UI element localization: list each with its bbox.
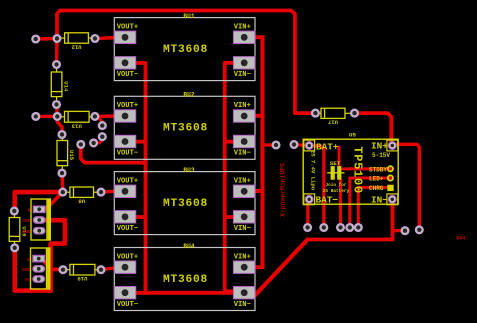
svg-text:VIN+: VIN+ [234, 23, 251, 31]
via U12 cathode [91, 35, 99, 43]
wire CN6 pin1 to U10 [41, 259, 63, 270]
connector CN5 pin 3 pad [33, 228, 45, 234]
module BU4 MT3608 board outline [114, 248, 255, 311]
svg-text:MT3608: MT3608 [163, 274, 208, 286]
connector CN5 pin 1 pad [33, 206, 45, 212]
wire via to BAT+ [296, 143, 308, 147]
svg-text:VOUT−: VOUT− [117, 301, 138, 309]
wire U15 bottom to junction G [60, 173, 64, 192]
diode U8 [70, 187, 94, 197]
module BU2 pad VOUT- [114, 135, 136, 147]
svg-text:2S 7.4V Lipo: 2S 7.4V Lipo [310, 150, 317, 191]
module U5 CHRG square [387, 185, 393, 191]
wire IN- stub to pad [393, 229, 406, 232]
diode U13 [65, 111, 90, 122]
svg-text:U5: U5 [349, 132, 356, 139]
svg-text:U15: U15 [68, 150, 75, 161]
via U17 anode [312, 109, 320, 117]
svg-text:VIN+: VIN+ [234, 102, 251, 110]
via U16 top [10, 207, 18, 215]
via E [90, 139, 98, 147]
via BAT+ stub [290, 141, 298, 149]
wire via pad elbow [94, 137, 103, 143]
via U16 bottom [11, 244, 19, 252]
via U10 cathode [97, 266, 105, 274]
wire junction G left to U16 [15, 192, 63, 211]
module BU1 pad VIN- [233, 57, 255, 69]
wire junction to U14 [55, 39, 59, 65]
diode U16 [9, 218, 20, 242]
via U12 anode junction [53, 35, 61, 43]
svg-text:Join for: Join for [325, 183, 346, 188]
wire VIN+ BU3 elbow [253, 189, 263, 193]
svg-text:2S Battery: 2S Battery [323, 189, 350, 194]
wire junction G diagonal to CN5 pin1 [40, 192, 63, 209]
svg-text:U13: U13 [71, 122, 82, 129]
module BU3 pad VOUT+ [114, 185, 136, 197]
svg-text:VOUT−: VOUT− [117, 150, 138, 158]
module BU3 pad VIN- [233, 211, 255, 223]
module BU2 pad VIN+ [233, 110, 255, 122]
via U15 top [58, 131, 66, 139]
wire VOUT- BU3 elbow [134, 215, 146, 219]
wire VIN- BU2 elbow [225, 140, 234, 144]
wire LED+ trace [350, 177, 391, 180]
svg-text:TP5100: TP5100 [351, 146, 365, 193]
wire BAT+ down to pad under U5 [310, 146, 324, 228]
svg-text:U14: U14 [62, 81, 69, 92]
wire STDBY trace [343, 167, 391, 170]
wire BAT- down to pad [306, 200, 309, 228]
via U10 anode [59, 266, 67, 274]
svg-text:LED+: LED+ [369, 176, 384, 183]
svg-text:BU4: BU4 [456, 235, 465, 241]
via U14 bottom [53, 101, 61, 109]
via IN- stub [401, 227, 409, 235]
module BU4 pad VOUT- [114, 287, 136, 299]
via U14 top [53, 61, 61, 69]
via under U5 4 [346, 224, 354, 232]
via under U5 3 [337, 224, 345, 232]
via C [98, 122, 106, 130]
svg-text:VOUT−: VOUT− [117, 225, 138, 233]
via under U5 1 [304, 224, 312, 232]
wire VIN- chain vertical [225, 63, 234, 291]
wire pad F down to inter-module channel [81, 144, 146, 162]
module BU4 pad VIN+ [233, 261, 255, 273]
svg-text:CN5: CN5 [22, 218, 31, 224]
svg-text:VOUT+: VOUT+ [117, 23, 138, 31]
svg-text:X-powerMiniUPS: X-powerMiniUPS [280, 163, 287, 217]
via U17 cathode [351, 109, 359, 117]
svg-text:VOUT−: VOUT− [117, 71, 138, 79]
wire LED+ drop [348, 178, 351, 228]
svg-text:BU4: BU4 [183, 243, 194, 250]
diode U15 [57, 141, 68, 166]
connector CN6 body [31, 248, 47, 289]
svg-text:GND: GND [22, 229, 31, 235]
module BU1 pad VOUT- [114, 57, 136, 69]
wire top bus from U12 junction to U17 [57, 11, 315, 114]
svg-text:BAT+: BAT+ [316, 141, 339, 152]
module U5 pad BAT+ [304, 140, 315, 151]
via U15 bottom [58, 169, 66, 177]
svg-text:VIN−: VIN− [234, 301, 251, 309]
module U5 STDBY led circle [388, 166, 393, 171]
module BU2 pad VOUT+ [114, 110, 136, 122]
wire U14 bottom to U13 junction [55, 105, 59, 117]
wire jumper down to pad [339, 180, 342, 228]
wire BU4 bottom horizontal [134, 291, 234, 295]
module U5 pad IN- [387, 194, 398, 205]
module U5 TP5100 board outline [303, 139, 398, 204]
via under U5 5 [354, 224, 362, 232]
module U5 pad BAT- [304, 194, 315, 205]
wire stub to left pad row1 [36, 37, 57, 41]
svg-text:VIN+: VIN+ [234, 253, 251, 261]
module BU3 MT3608 board outline [114, 172, 255, 235]
wire stub to left pad row2 [36, 115, 58, 118]
wire U17 right pad to U5 IN+ [355, 113, 392, 143]
module U5 pad IN+ [387, 140, 398, 151]
wire VOUT- chain vertical [134, 63, 146, 293]
connector CN6 pin 1 pad [33, 255, 45, 261]
diode U17 [321, 108, 345, 118]
wire VIN+ trunk [253, 37, 263, 267]
svg-text:U10: U10 [77, 275, 88, 282]
diode U10 [70, 264, 95, 275]
module BU4 pad VIN- [233, 287, 255, 299]
module BU2 MT3608 board outline [114, 96, 255, 159]
svg-text:VIN−: VIN− [234, 225, 251, 233]
wire SET jumper feed [338, 147, 341, 165]
module BU2 pad VIN- [233, 135, 255, 147]
module U5 LED+ circle [388, 175, 393, 180]
wire U13 right to via pad [95, 116, 102, 125]
svg-text:BAT−: BAT− [316, 194, 339, 205]
module BU4 pad VOUT+ [114, 261, 136, 273]
connector CN5 pin 2 pad [33, 217, 45, 223]
via left row2 [32, 113, 40, 121]
connector CN5 body [31, 199, 47, 240]
svg-text:N: N [27, 257, 30, 263]
via D [98, 133, 106, 141]
wire VOUT- BU2 elbow [134, 140, 146, 144]
via under U5 2 [320, 224, 328, 232]
connector CN6 pin 2 pad [33, 266, 45, 272]
via IN+ right [415, 226, 423, 234]
wire U12 to VOUT+ BU1 [95, 37, 120, 38]
wire trunk stub to via [263, 143, 273, 146]
svg-text:5-15V: 5-15V [372, 152, 390, 159]
module BU1 MT3608 board outline [114, 18, 255, 81]
module BU3 pad VOUT- [114, 211, 136, 223]
svg-text:VIN−: VIN− [234, 150, 251, 158]
via junction G [59, 188, 67, 196]
via F [77, 141, 85, 149]
svg-text:MT3608: MT3608 [163, 44, 208, 56]
svg-text:BU2: BU2 [183, 92, 194, 99]
svg-text:MT3608: MT3608 [163, 198, 208, 210]
svg-text:VOUT+: VOUT+ [117, 102, 138, 110]
svg-text:STDBY: STDBY [369, 166, 387, 173]
svg-text:N: N [28, 208, 31, 214]
wire CHRG trace [358, 186, 390, 189]
diode U14 [51, 72, 62, 97]
wire VIN- BU3 elbow [225, 215, 234, 219]
via trunk stub [272, 141, 280, 149]
svg-text:IN−: IN− [371, 194, 388, 205]
svg-text:BU3: BU3 [183, 167, 194, 174]
svg-text:VO: VO [24, 277, 30, 283]
wire bus diagonal to BU4 VIN- [255, 240, 308, 296]
wire CHRG drop [357, 187, 360, 227]
wire U5 IN+ to right pad [396, 144, 419, 229]
svg-text:SET: SET [330, 160, 341, 167]
via U13 anode junction [53, 113, 61, 121]
connector CN6 pin 3 pad [33, 276, 45, 282]
wire IN- down to bus [308, 201, 393, 240]
wire U8 to VOUT+ BU3 [101, 191, 120, 192]
svg-text:VOUT+: VOUT+ [117, 177, 138, 185]
wire VIN+ BU2 elbow [253, 114, 263, 118]
svg-text:VIN−: VIN− [234, 71, 251, 79]
wire U13 to VOUT+ BU2 [95, 114, 120, 118]
svg-text:IN+: IN+ [371, 141, 388, 152]
svg-text:U17: U17 [328, 119, 338, 126]
module BU1 pad VOUT+ [114, 31, 136, 43]
svg-text:MT3608: MT3608 [163, 123, 208, 135]
via U8 cathode [97, 188, 105, 196]
wire U16 bottom loop around CN6 [15, 220, 65, 290]
svg-text:U12: U12 [71, 43, 82, 50]
module BU1 pad VIN+ [233, 31, 255, 43]
wire U13 junction to U15 top [57, 116, 62, 134]
svg-text:GND: GND [22, 267, 31, 273]
svg-text:VOUT+: VOUT+ [117, 253, 138, 261]
jumper JP1 SET pads [327, 172, 344, 174]
diode U12 [65, 33, 89, 43]
wire U10 to VOUT+ BU4 [101, 268, 118, 270]
via left row1 [32, 35, 40, 43]
svg-text:CHRG: CHRG [369, 185, 384, 192]
svg-text:U8: U8 [78, 198, 85, 205]
via U13 cathode [91, 113, 99, 121]
svg-text:VIN+: VIN+ [234, 177, 251, 185]
module BU3 pad VIN+ [233, 185, 255, 197]
svg-text:BU1: BU1 [183, 13, 194, 20]
